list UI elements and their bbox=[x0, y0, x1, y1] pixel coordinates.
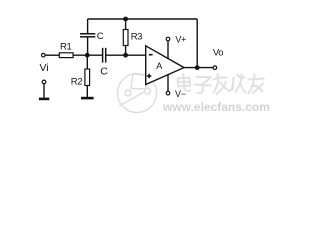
svg-text:C: C bbox=[97, 31, 104, 42]
svg-text:V−: V− bbox=[175, 89, 186, 99]
svg-text:www.elecfans.com: www.elecfans.com bbox=[162, 100, 270, 114]
svg-text:C: C bbox=[100, 66, 108, 78]
svg-text:Vi: Vi bbox=[40, 62, 49, 74]
svg-text:R2: R2 bbox=[71, 77, 82, 88]
svg-text:A: A bbox=[156, 61, 162, 71]
svg-text:V+: V+ bbox=[175, 34, 186, 44]
svg-text:Vo: Vo bbox=[213, 48, 223, 59]
svg-text:R1: R1 bbox=[60, 41, 71, 52]
svg-text:R3: R3 bbox=[131, 32, 142, 43]
